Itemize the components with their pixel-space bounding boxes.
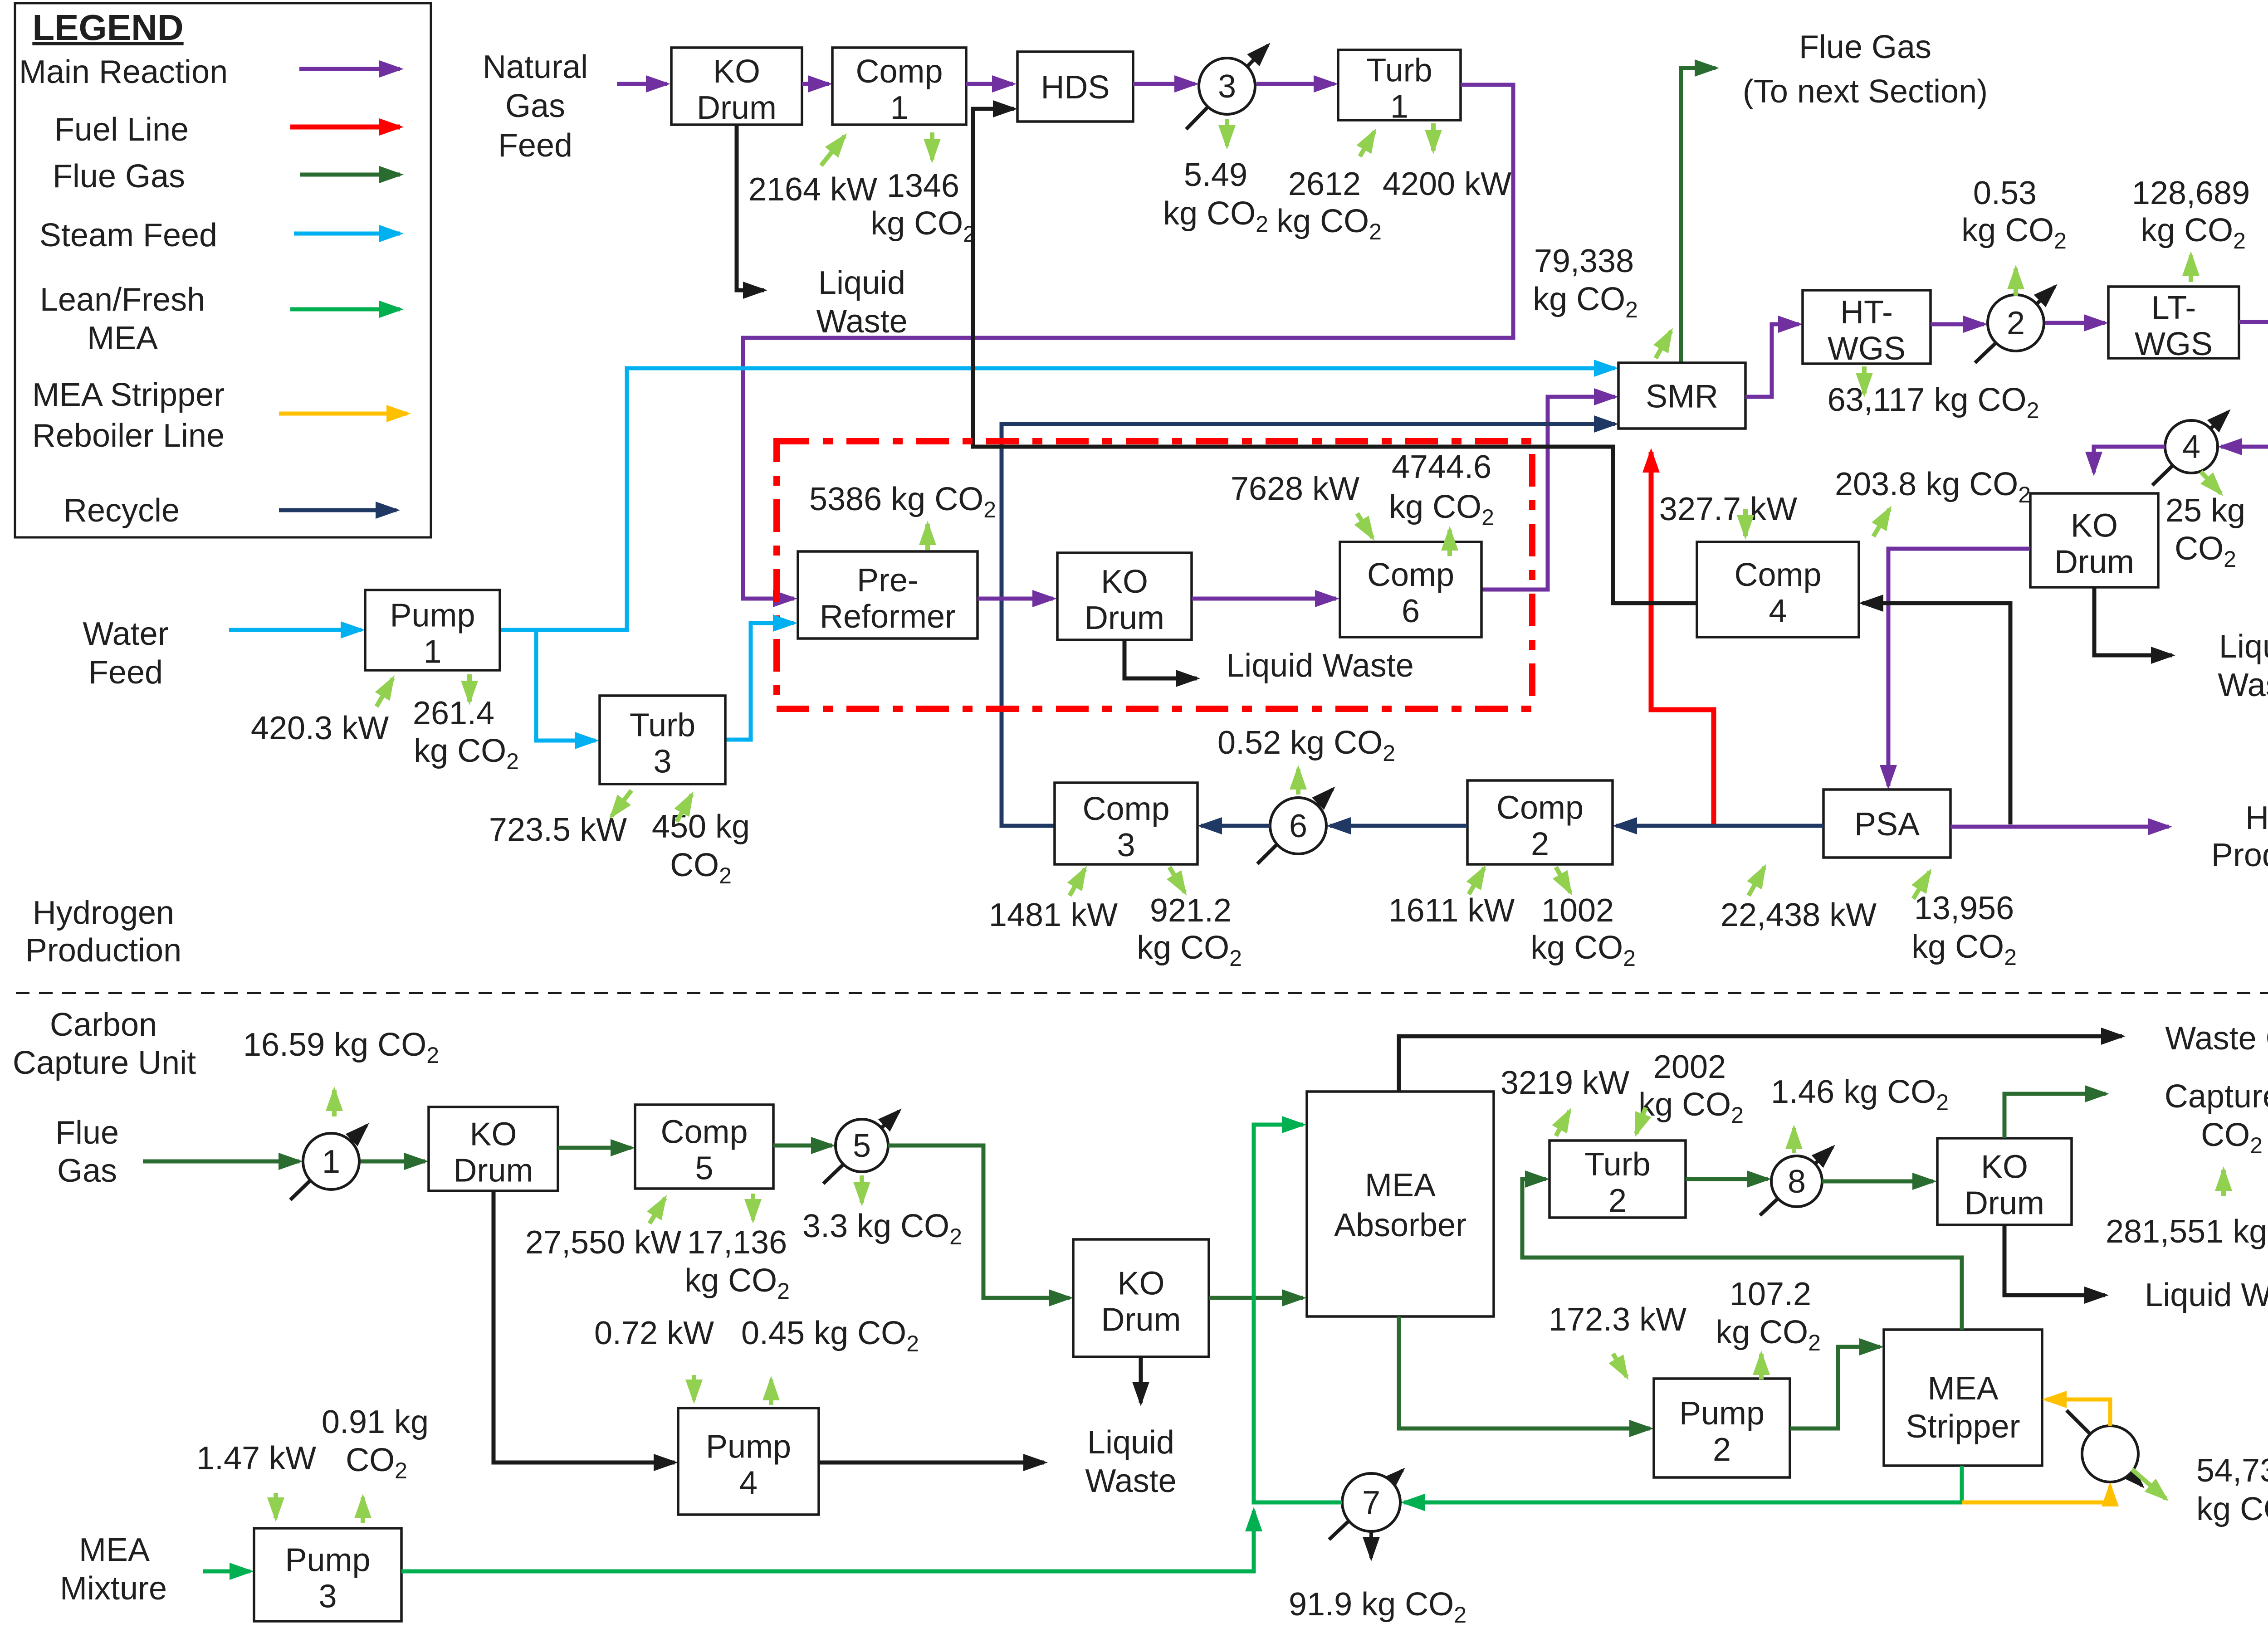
- svg-text:kg CO2: kg CO2: [1961, 212, 2067, 253]
- svg-text:22,438 kW: 22,438 kW: [1721, 897, 1877, 933]
- wire captured CO2 (dark green): [2004, 1094, 2106, 1138]
- box HDS: [1017, 52, 1133, 122]
- wire HX3 to Turb 1 (purple): [1256, 82, 1334, 86]
- svg-text:0.53: 0.53: [1973, 175, 2037, 211]
- svg-text:3219 kW: 3219 kW: [1501, 1065, 1629, 1101]
- heat exchanger HX5: [823, 1111, 899, 1184]
- svg-text:2002: 2002: [1653, 1049, 1726, 1085]
- box Pump 3: [254, 1528, 401, 1621]
- arrow 54,737 kg CO2 from reboiler: [2132, 1469, 2166, 1499]
- svg-text:Comp: Comp: [855, 54, 943, 90]
- svg-text:kg CO2: kg CO2: [2196, 1491, 2268, 1532]
- svg-text:KO: KO: [1117, 1266, 1164, 1302]
- arrow 261.4 kg CO2 from Pump 1: [467, 674, 472, 702]
- svg-text:3: 3: [653, 744, 671, 780]
- svg-text:Stripper: Stripper: [1906, 1409, 2020, 1445]
- svg-text:Absorber: Absorber: [1334, 1207, 1466, 1243]
- arrow 17,136 kg CO2 from Comp 5: [751, 1194, 755, 1220]
- legend arrow lean/fresh MEA (green): [290, 307, 400, 312]
- svg-text:6: 6: [1402, 593, 1420, 629]
- wire PSA to H2 product (purple): [1950, 825, 2169, 829]
- svg-text:107.2: 107.2: [1730, 1276, 1811, 1312]
- wire HX6 to Comp 3 (navy): [1201, 824, 1270, 828]
- svg-text:Comp: Comp: [1496, 790, 1584, 826]
- svg-text:7: 7: [1362, 1485, 1380, 1521]
- svg-text:450 kg: 450 kg: [652, 809, 750, 845]
- svg-text:1: 1: [322, 1144, 340, 1180]
- svg-text:Liquid Waste: Liquid Waste: [1226, 648, 1414, 684]
- svg-text:13,956: 13,956: [1914, 890, 2014, 926]
- svg-text:Capture Unit: Capture Unit: [13, 1045, 196, 1081]
- arrow 4744.6 kg CO2 from Comp 6: [1447, 530, 1452, 556]
- wire HDS to HX3 (purple): [1133, 82, 1195, 86]
- svg-text:Gas: Gas: [505, 88, 565, 124]
- svg-text:WGS: WGS: [2135, 326, 2213, 362]
- svg-text:Turb: Turb: [1584, 1146, 1650, 1183]
- svg-text:921.2: 921.2: [1150, 892, 1232, 929]
- svg-text:723.5 kW: 723.5 kW: [489, 812, 627, 848]
- svg-text:3: 3: [1117, 827, 1135, 863]
- wire HX5 to KO Drum 2 (dark green): [888, 1146, 1070, 1298]
- arrow 2164 kW into Comp 1: [821, 136, 845, 166]
- svg-text:27,550 kW: 27,550 kW: [525, 1224, 681, 1261]
- svg-text:5: 5: [695, 1150, 713, 1187]
- svg-text:Carbon: Carbon: [50, 1007, 157, 1043]
- svg-text:kg CO2: kg CO2: [1163, 195, 1268, 237]
- svg-text:25 kg: 25 kg: [2165, 492, 2245, 529]
- svg-text:5386 kg CO2: 5386 kg CO2: [809, 481, 996, 522]
- svg-text:Pre-: Pre-: [857, 562, 919, 599]
- wire natural gas feed (purple): [617, 82, 667, 86]
- svg-text:8: 8: [1788, 1164, 1806, 1200]
- box Turb 2: [1549, 1141, 1686, 1219]
- svg-text:7628 kW: 7628 kW: [1231, 471, 1359, 507]
- arrow 0.45 kg CO2 from Pump 4: [769, 1380, 773, 1405]
- svg-text:6: 6: [1289, 808, 1307, 844]
- wire absorber bottom to Pump 2 (dark green): [1399, 1316, 1650, 1428]
- svg-text:Main Reaction: Main Reaction: [19, 54, 228, 90]
- svg-text:Pump: Pump: [706, 1429, 791, 1465]
- svg-text:kg CO2: kg CO2: [684, 1263, 790, 1304]
- svg-text:5: 5: [853, 1128, 871, 1164]
- svg-text:Production: Production: [25, 932, 181, 969]
- arrow 172.3 kW into Pump 2: [1613, 1354, 1627, 1377]
- wire HX8 to KO Drum 3 (dark green): [1822, 1180, 1933, 1184]
- svg-text:Drum: Drum: [1085, 600, 1164, 636]
- wire Comp 5 to HX5 (dark green): [773, 1144, 832, 1148]
- arrow 1.46 kg CO2 from HX8: [1792, 1128, 1796, 1153]
- wire Pump 1 branch to Turb 3 (cyan): [536, 630, 596, 741]
- arrow 27,550 kW into Comp 5: [650, 1198, 665, 1224]
- box Turb 1: [1338, 50, 1461, 125]
- svg-text:172.3 kW: 172.3 kW: [1549, 1302, 1686, 1338]
- svg-text:KO: KO: [469, 1116, 517, 1153]
- legend arrow recycle (navy): [279, 508, 396, 512]
- box Pre-Reformer: [798, 551, 978, 639]
- svg-text:Drum: Drum: [1101, 1302, 1181, 1338]
- arrow 79,338 kg CO2 from SMR: [1656, 331, 1671, 358]
- box KO Drum (CCU out): [1937, 1138, 2072, 1225]
- svg-text:kg CO2: kg CO2: [1533, 281, 1638, 322]
- box KO Drum (CCU mid): [1073, 1239, 1209, 1357]
- wire water feed to Pump 1 (cyan): [229, 628, 362, 632]
- arrow 5386 kg CO2 from Pre-Reformer: [925, 524, 930, 550]
- svg-text:3: 3: [1218, 68, 1236, 105]
- arrow 2612 kg CO2 into Turb 1: [1360, 132, 1374, 156]
- svg-text:kg CO2: kg CO2: [1716, 1314, 1821, 1355]
- svg-text:Waste: Waste: [2218, 667, 2268, 703]
- box Pump 2: [1654, 1379, 1790, 1477]
- svg-text:3: 3: [318, 1579, 337, 1615]
- svg-text:4744.6: 4744.6: [1392, 449, 1491, 485]
- reboiler heat exchanger: [2067, 1410, 2142, 1486]
- svg-text:327.7 kW: 327.7 kW: [1659, 491, 1797, 527]
- arrow 4200 kW from Turb 1: [1431, 123, 1436, 151]
- svg-text:MEA: MEA: [87, 320, 158, 356]
- wire KO Drum liquid waste (black): [2094, 587, 2172, 655]
- svg-text:Liquid: Liquid: [2219, 629, 2268, 665]
- svg-text:WGS: WGS: [1828, 331, 1906, 367]
- svg-text:0.45 kg CO2: 0.45 kg CO2: [741, 1315, 919, 1356]
- legend arrow steam feed (cyan): [294, 232, 400, 236]
- wire Pump 2 to MEA Stripper (dark green): [1790, 1347, 1880, 1428]
- wire stripper overhead to Turb 2 (dark green): [1522, 1179, 1962, 1330]
- wire absorber waste gas (black): [1399, 1036, 2122, 1092]
- arrow 5.49 kg CO2 from HX3: [1225, 119, 1229, 146]
- svg-text:Product: Product: [2211, 837, 2268, 873]
- wire PSA to Comp 2 (navy): [1616, 824, 1823, 828]
- dashed section separator: [16, 992, 2268, 994]
- heat exchanger HX6: [1257, 789, 1333, 864]
- arrow 327.7 kW into Comp 4: [1743, 509, 1748, 536]
- svg-text:MEA: MEA: [1365, 1167, 1436, 1204]
- svg-text:kg CO2: kg CO2: [1911, 929, 2017, 970]
- wire Turb 2 to HX8 (dark green): [1686, 1177, 1768, 1181]
- svg-text:Captured: Captured: [2165, 1078, 2268, 1115]
- svg-text:kg CO2: kg CO2: [414, 733, 519, 774]
- arrow 921.2 kg CO2 from Comp 3: [1169, 867, 1185, 892]
- svg-text:HDS: HDS: [1041, 69, 1110, 106]
- svg-text:Flue Gas: Flue Gas: [1799, 29, 1931, 65]
- legend arrow flue gas (dark green): [300, 173, 400, 177]
- svg-text:Waste Gas: Waste Gas: [2165, 1020, 2268, 1057]
- wire KO Drum to PSA (purple): [1888, 549, 2030, 786]
- svg-text:79,338: 79,338: [1534, 243, 1634, 279]
- wire Turb 3 to Pre-Reformer (cyan): [725, 623, 794, 740]
- box PSA: [1823, 790, 1950, 858]
- svg-text:54,737: 54,737: [2196, 1453, 2268, 1489]
- wire KO Drum 3 liquid waste (black): [2004, 1225, 2105, 1295]
- box Turb 3: [600, 696, 725, 784]
- svg-text:kg CO2: kg CO2: [1389, 489, 1494, 530]
- svg-text:Liquid: Liquid: [1087, 1424, 1174, 1461]
- svg-text:Turb: Turb: [630, 707, 695, 744]
- svg-text:Feed: Feed: [498, 127, 572, 164]
- svg-text:1346: 1346: [887, 168, 959, 204]
- svg-text:1: 1: [1390, 89, 1408, 125]
- box Comp 3: [1055, 783, 1198, 864]
- svg-text:Lean/Fresh: Lean/Fresh: [40, 282, 205, 318]
- legend arrow fuel line (red): [290, 125, 400, 130]
- box KO Drum (LT-WGS): [2030, 493, 2158, 587]
- svg-text:Recycle: Recycle: [64, 492, 180, 529]
- wire PSA recycle to Comp 4 (black): [1862, 603, 2010, 824]
- svg-text:Drum: Drum: [697, 90, 777, 126]
- svg-text:SMR: SMR: [1646, 379, 1718, 415]
- svg-text:2: 2: [1713, 1432, 1731, 1468]
- wire Comp 3 recycle to SMR (navy): [1002, 424, 1615, 826]
- svg-text:Drum: Drum: [454, 1153, 533, 1189]
- box Comp 6: [1340, 542, 1481, 637]
- heat exchanger HX1: [290, 1126, 367, 1200]
- svg-text:MEA: MEA: [1927, 1370, 1998, 1407]
- arrow 3.3 kg CO2 from HX5: [860, 1175, 864, 1203]
- svg-text:H2: H2: [2245, 800, 2268, 841]
- svg-text:Fuel Line: Fuel Line: [54, 112, 189, 148]
- svg-text:Flue: Flue: [55, 1115, 119, 1151]
- svg-text:Mixture: Mixture: [60, 1570, 167, 1607]
- svg-text:Turb: Turb: [1366, 53, 1432, 89]
- svg-text:Drum: Drum: [1965, 1185, 2044, 1222]
- arrow 0.91 kg CO2 from Pump 3: [361, 1497, 365, 1523]
- svg-text:1: 1: [890, 90, 908, 126]
- wire reboiler feed (gold): [1962, 1486, 2110, 1502]
- wire Pre-Reformer to KO Drum (purple): [978, 597, 1053, 601]
- svg-text:kg CO2: kg CO2: [1276, 203, 1382, 244]
- box KO Drum (NG): [671, 48, 802, 126]
- svg-text:17,136: 17,136: [687, 1224, 787, 1261]
- box Comp 2: [1467, 780, 1613, 864]
- arrow 0.72 kW into Pump 4: [692, 1375, 696, 1400]
- svg-text:Natural: Natural: [483, 49, 588, 85]
- svg-text:kg CO2: kg CO2: [1137, 930, 1242, 971]
- heat exchanger HX4: [2152, 412, 2228, 485]
- arrow 107.2 kg CO2 from Pump 2: [1759, 1354, 1764, 1380]
- wire KO Drum to Comp 6 (purple): [1192, 597, 1336, 601]
- arrow 13,956 kg CO2 from PSA: [1913, 872, 1930, 899]
- arrow 1346 kg CO2 from Comp 1: [930, 132, 934, 160]
- wire Turb 1 to Pre-Reformer (purple): [743, 85, 1513, 599]
- heat exchanger HX2: [1975, 287, 2055, 363]
- arrow 450 kg CO2 into Turb 3: [677, 795, 692, 822]
- box Pump 1: [365, 590, 500, 670]
- svg-text:Waste: Waste: [1085, 1463, 1176, 1499]
- red dashed pre-reformer boundary: [777, 441, 1532, 709]
- wire HX1 to KO Drum (dark green): [361, 1160, 425, 1164]
- svg-text:128,689: 128,689: [2132, 175, 2250, 211]
- wire KO Drum CCU liquid to Pump 4 (black): [494, 1191, 675, 1462]
- arrow 0.52 kg CO2 from HX6: [1296, 769, 1300, 795]
- svg-text:2: 2: [1531, 826, 1549, 863]
- wire Comp 1 to HDS (purple): [966, 82, 1013, 86]
- box Comp 5: [635, 1105, 773, 1189]
- wire steam feed Pump1 to SMR (cyan): [500, 368, 1615, 630]
- svg-text:2: 2: [1608, 1183, 1627, 1219]
- arrow 1002 kg CO2 from Comp 2: [1556, 867, 1570, 892]
- svg-text:4: 4: [1769, 593, 1787, 629]
- box KO Drum (pre-reformer): [1057, 553, 1192, 640]
- svg-text:1611 kW: 1611 kW: [1388, 892, 1515, 929]
- arrow 0.53 kg CO2 from HX2: [2014, 268, 2018, 296]
- svg-text:1002: 1002: [1541, 892, 1614, 929]
- box SMR: [1618, 363, 1745, 429]
- svg-text:Pump: Pump: [285, 1542, 370, 1579]
- svg-text:Comp: Comp: [1367, 557, 1454, 593]
- wire SMR flue gas out (dark green): [1681, 68, 1716, 363]
- box HT-WGS: [1803, 290, 1931, 367]
- box MEA Absorber: [1307, 1092, 1494, 1316]
- svg-text:Steam Feed: Steam Feed: [39, 217, 217, 253]
- wire stripper bottoms (green): [1404, 1466, 1962, 1502]
- svg-text:Feed: Feed: [88, 654, 163, 691]
- svg-text:4: 4: [2182, 429, 2200, 465]
- box Comp 4: [1697, 542, 1859, 637]
- svg-text:1.47 kW: 1.47 kW: [196, 1440, 316, 1477]
- svg-text:Waste: Waste: [816, 303, 907, 340]
- wire KO Drum 2 to MEA Absorber (dark green): [1209, 1296, 1303, 1300]
- svg-text:0.91 kg: 0.91 kg: [322, 1404, 429, 1440]
- wire KO Drum to Comp 5 (dark green): [558, 1146, 631, 1150]
- wire Comp 2 to HX6 (navy): [1330, 824, 1467, 828]
- wire KO Drum liquid waste (black): [1124, 640, 1197, 678]
- svg-text:4: 4: [739, 1465, 758, 1501]
- svg-text:Comp: Comp: [660, 1114, 748, 1150]
- wire HX4 to KO Drum (purple): [2094, 447, 2165, 473]
- svg-text:MEA: MEA: [79, 1532, 150, 1568]
- svg-text:KO: KO: [2071, 508, 2118, 544]
- box Comp 1: [832, 48, 966, 126]
- svg-text:LT-: LT-: [2151, 290, 2196, 326]
- svg-text:kg CO2: kg CO2: [1530, 930, 1636, 971]
- wire KO Drum liquid waste (black): [737, 125, 764, 290]
- svg-text:Water: Water: [83, 616, 168, 652]
- wire Comp 6 to SMR (purple): [1481, 397, 1615, 590]
- svg-text:281,551 kg CO2: 281,551 kg CO2: [2106, 1214, 2268, 1255]
- arrow 420.3 kW into Pump 1: [376, 678, 393, 707]
- arrow 723.5 kW from Turb 3: [611, 790, 631, 816]
- wire HT-WGS to HX2 (purple): [1931, 322, 1984, 327]
- arrow 128,689 kg CO2 from LT-WGS: [2189, 255, 2193, 282]
- svg-text:KO: KO: [1101, 564, 1148, 600]
- svg-text:1.46 kg CO2: 1.46 kg CO2: [1771, 1074, 1949, 1115]
- wire flue gas feed to HX1 (dark green): [143, 1160, 299, 1164]
- wire LT-WGS to HX4 (purple): [2221, 322, 2268, 447]
- svg-text:261.4: 261.4: [413, 695, 494, 731]
- svg-text:Reboiler Line: Reboiler Line: [32, 418, 225, 454]
- arrow 16.59 kg CO2 from HX1: [332, 1090, 337, 1116]
- heat exchanger HX8: [1760, 1147, 1833, 1215]
- wire KO Drum 2 liquid waste down (black): [1139, 1357, 1143, 1403]
- svg-text:91.9 kg CO2: 91.9 kg CO2: [1289, 1586, 1466, 1628]
- svg-text:KO: KO: [1981, 1149, 2028, 1185]
- svg-text:Reformer: Reformer: [820, 599, 956, 635]
- heat exchanger HX7: [1329, 1470, 1403, 1558]
- box LT-WGS: [2108, 287, 2239, 362]
- arrow 3219 kW into Turb 2: [1556, 1111, 1569, 1136]
- box MEA Stripper: [1884, 1330, 2042, 1466]
- svg-text:Flue Gas: Flue Gas: [53, 158, 185, 195]
- legend arrow main reaction (purple): [299, 67, 400, 71]
- svg-text:1: 1: [423, 634, 441, 670]
- svg-text:4200 kW: 4200 kW: [1383, 166, 1511, 202]
- wire reboiler return to stripper (gold): [2046, 1399, 2110, 1426]
- box Pump 4: [678, 1408, 819, 1515]
- wire SMR to HT-WGS (purple): [1745, 324, 1799, 397]
- svg-text:Hydrogen: Hydrogen: [33, 895, 174, 931]
- svg-text:0.72 kW: 0.72 kW: [594, 1315, 714, 1351]
- wire KO Drum to Comp 1 (purple): [802, 82, 829, 86]
- legend arrow reboiler line (gold): [279, 412, 407, 416]
- svg-text:KO: KO: [713, 54, 760, 90]
- arrow 1.47 kW into Pump 3: [274, 1493, 278, 1518]
- svg-text:2164 kW: 2164 kW: [748, 171, 877, 208]
- svg-text:LEGEND: LEGEND: [32, 7, 183, 48]
- arrow 25 kg CO2 from HX4: [2201, 472, 2221, 493]
- svg-text:16.59 kg CO2: 16.59 kg CO2: [243, 1027, 439, 1068]
- svg-text:63,117 kg CO2: 63,117 kg CO2: [1828, 382, 2039, 423]
- svg-text:Liquid: Liquid: [818, 265, 905, 301]
- svg-text:Comp: Comp: [1734, 557, 1821, 593]
- wire Comp 4 to HDS (black): [973, 109, 1697, 603]
- arrow 203.8 kg CO2 from Comp 4: [1873, 509, 1890, 536]
- heat exchanger HX3: [1186, 45, 1268, 129]
- arrow 281,551 kg CO2 up: [2221, 1170, 2226, 1196]
- svg-text:Liquid Waste: Liquid Waste: [2145, 1277, 2268, 1313]
- svg-text:Comp: Comp: [1082, 791, 1169, 827]
- wire lean MEA to absorber (green): [1254, 1125, 1342, 1502]
- svg-text:Pump: Pump: [1679, 1395, 1765, 1432]
- svg-text:2: 2: [2007, 305, 2025, 341]
- svg-text:5.49: 5.49: [1184, 157, 1247, 193]
- box KO Drum (CCU inlet): [429, 1107, 558, 1191]
- svg-text:2612: 2612: [1288, 166, 1361, 202]
- svg-text:0.52 kg CO2: 0.52 kg CO2: [1217, 725, 1395, 766]
- svg-text:420.3 kW: 420.3 kW: [251, 710, 389, 746]
- svg-text:203.8 kg CO2: 203.8 kg CO2: [1835, 466, 2031, 507]
- wire HX2 to LT-WGS (purple): [2045, 321, 2105, 325]
- svg-text:kg CO2: kg CO2: [2141, 212, 2246, 253]
- arrow 63,117 kg CO2 from HT-WGS: [1862, 366, 1867, 394]
- svg-text:1481 kW: 1481 kW: [989, 897, 1118, 933]
- wire Pump 3 fresh MEA join (green): [401, 1511, 1254, 1571]
- svg-text:PSA: PSA: [1854, 806, 1920, 843]
- svg-text:Gas: Gas: [57, 1153, 117, 1189]
- svg-text:MEA Stripper: MEA Stripper: [32, 377, 225, 413]
- wire MEA mixture to Pump 3 (green): [203, 1570, 250, 1574]
- legend box: [15, 3, 431, 537]
- svg-text:Drum: Drum: [2054, 544, 2134, 580]
- wire PSA fuel line to SMR (red): [1651, 452, 1714, 824]
- arrow 1481 kW into Comp 3: [1070, 869, 1085, 896]
- arrow 2002 kg CO2 from Turb 2: [1636, 1107, 1646, 1134]
- arrow 22,438 kW into PSA: [1749, 867, 1765, 896]
- svg-text:Pump: Pump: [390, 598, 475, 634]
- arrow 7628 kW into Comp 6: [1357, 513, 1373, 538]
- svg-text:HT-: HT-: [1840, 294, 1893, 331]
- svg-text:kg CO2: kg CO2: [870, 205, 976, 247]
- svg-text:kg CO2: kg CO2: [1638, 1087, 1744, 1128]
- svg-text:3.3 kg CO2: 3.3 kg CO2: [802, 1208, 962, 1249]
- wire Pump 4 liquid waste (black): [819, 1461, 1044, 1465]
- arrow 1611 kW into Comp 2: [1469, 868, 1484, 894]
- svg-text:(To next Section): (To next Section): [1743, 73, 1988, 110]
